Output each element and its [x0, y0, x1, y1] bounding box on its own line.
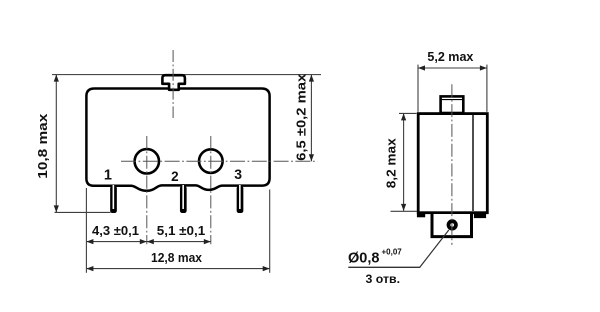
svg-text:3 отв.: 3 отв.: [366, 272, 401, 286]
svg-text:+0,07: +0,07: [382, 248, 403, 257]
svg-text:1: 1: [104, 168, 112, 184]
svg-text:4,3 ±0,1: 4,3 ±0,1: [92, 223, 139, 238]
svg-text:10,8 max: 10,8 max: [35, 113, 50, 179]
svg-text:3: 3: [234, 166, 242, 182]
svg-text:12,8 max: 12,8 max: [151, 250, 203, 265]
svg-text:8,2 max: 8,2 max: [383, 137, 398, 188]
svg-text:5,1 ±0,1: 5,1 ±0,1: [157, 223, 206, 238]
svg-text:6,5 ±0,2 max: 6,5 ±0,2 max: [294, 73, 309, 161]
svg-text:2: 2: [171, 169, 179, 184]
svg-text:Ø0,8: Ø0,8: [348, 250, 379, 266]
svg-text:5,2 max: 5,2 max: [427, 49, 474, 64]
